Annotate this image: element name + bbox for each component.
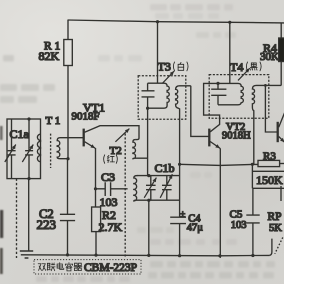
svg-text:9018H: 9018H — [222, 130, 251, 141]
wire T3 secondary top to VT2 base — [191, 86, 209, 137]
T4 primary — [218, 83, 243, 104]
T2 tank winding (left of C1b) — [134, 176, 138, 201]
transistor VT1 9018F — [83, 129, 85, 147]
svg-text:2.7K: 2.7K — [99, 220, 123, 234]
transformer T4 dashed box — [209, 75, 269, 119]
svg-text:T4: T4 — [230, 60, 243, 74]
T3 primary — [148, 83, 170, 108]
T2 core dashed — [124, 134, 126, 259]
transistor VT2 9018H — [208, 129, 210, 147]
svg-text:103: 103 — [100, 195, 118, 209]
capacitor C2 — [67, 159, 69, 255]
svg-text:±: ± — [180, 209, 185, 219]
capacitor C1a — [7, 119, 41, 179]
svg-text:47μ: 47μ — [187, 222, 204, 233]
svg-text:T3: T3 — [158, 59, 171, 73]
wire bottom rail — [21, 255, 270, 256]
T3 feed from rail — [157, 22, 159, 83]
svg-text:RP: RP — [268, 211, 282, 223]
capacitor C3 — [94, 187, 97, 190]
transformer T3 dashed box — [138, 76, 186, 119]
svg-text:223: 223 — [37, 217, 57, 232]
T4 feed from rail — [229, 22, 231, 83]
svg-text:82K: 82K — [39, 49, 60, 63]
T4 tank cap — [217, 83, 219, 104]
svg-text:C3: C3 — [101, 170, 115, 184]
resistor R2 — [92, 207, 101, 232]
label box CBM-223P — [34, 260, 141, 274]
T4 secondary — [252, 85, 265, 164]
wire top rail — [68, 20, 285, 23]
T1 secondary — [57, 138, 83, 159]
dashed gang link C1a — [16, 179, 18, 258]
resistor 150K — [251, 164, 253, 188]
transformer T2 feedback winding — [133, 140, 148, 159]
svg-text:9018F: 9018F — [72, 111, 100, 123]
transformer T1 primary — [37, 134, 40, 161]
potentiometer RP 5K — [280, 186, 282, 201]
svg-text:C1a: C1a — [10, 127, 30, 141]
svg-text:CBM-223P: CBM-223P — [84, 262, 137, 274]
wire junction down to C1b — [147, 108, 149, 175]
T1 core — [50, 134, 52, 168]
capacitor C5 103 — [252, 188, 254, 255]
resistor R3 — [258, 160, 280, 166]
svg-text:C5: C5 — [230, 208, 243, 220]
transistor Q3 at edge — [277, 122, 279, 142]
wire R1 bottom — [67, 66, 69, 159]
svg-text:C1b: C1b — [155, 161, 175, 175]
svg-text:R3: R3 — [263, 150, 276, 162]
svg-text:5K: 5K — [269, 223, 282, 234]
capacitor C4 47u — [179, 164, 181, 256]
T3 secondary — [176, 86, 191, 165]
T3 tank cap — [147, 83, 149, 108]
resistor R1 — [67, 20, 69, 40]
svg-text:T 1: T 1 — [46, 115, 61, 127]
wire output node — [178, 163, 181, 166]
ground — [28, 179, 30, 251]
svg-text:T2: T2 — [110, 145, 122, 157]
resistor R4 30K — [280, 23, 282, 86]
T4 secondary top leads — [265, 84, 281, 86]
svg-text:30K: 30K — [260, 51, 279, 63]
svg-text:103: 103 — [231, 220, 247, 231]
capacitor C1b — [137, 175, 179, 177]
svg-text:150K: 150K — [256, 173, 283, 187]
